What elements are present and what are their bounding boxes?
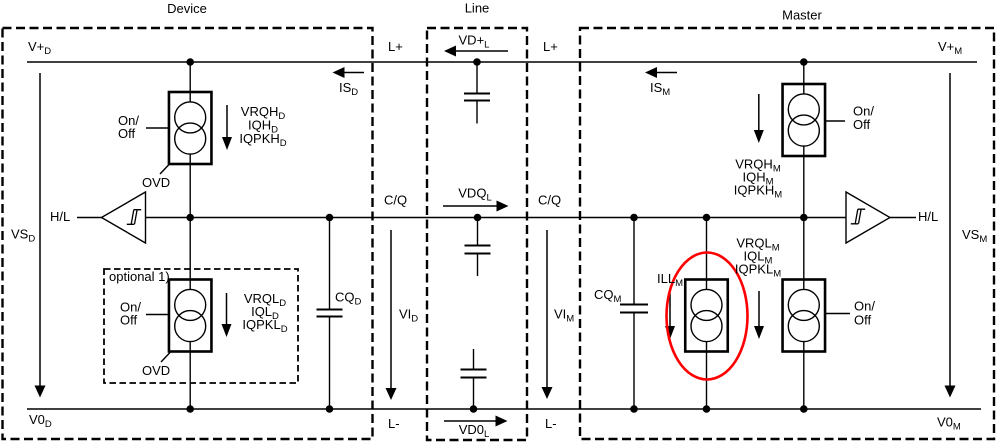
node C/Q line <box>474 214 482 222</box>
node C/Q master source <box>800 214 808 222</box>
wire device top current source to C/Q rail <box>189 154 191 218</box>
arrow VRQLD current <box>222 293 232 337</box>
svg-text:C/Q: C/Q <box>538 193 561 208</box>
svg-text:Line: Line <box>465 1 490 16</box>
svg-text:Off: Off <box>853 117 870 132</box>
arrow ISM <box>645 67 677 78</box>
wire top rail L+ <box>27 61 977 63</box>
svg-text:OVD: OVD <box>142 175 170 190</box>
arrow ILLM current <box>665 293 675 339</box>
node C/Q device source <box>186 214 194 222</box>
svg-text:L-: L- <box>388 416 400 431</box>
arrow VIM <box>542 230 553 399</box>
svg-text:H/L: H/L <box>918 209 938 224</box>
wire OVD pointer device top <box>160 165 169 175</box>
node top rail device <box>186 58 194 66</box>
arrow VRQHM current <box>754 94 764 143</box>
wire C/Q rail to master bottom current source <box>803 218 805 290</box>
current source ILL master <box>685 280 728 352</box>
current source IQL device (optional) <box>169 280 212 352</box>
svg-text:L-: L- <box>545 416 557 431</box>
arrow VD+L <box>444 46 508 57</box>
node top rail master <box>800 58 808 66</box>
wire C/Q rail <box>146 217 846 219</box>
capacitor line bottom <box>461 349 487 409</box>
current source IQH device (top) <box>169 92 212 164</box>
arrow ISD <box>333 67 365 78</box>
wire V+M rail to master top current source <box>803 62 805 94</box>
wire On/Off to master bottom current source <box>825 313 850 315</box>
op-amp comparator master (H/L) <box>846 192 890 243</box>
wire On/Off to device top current source <box>146 127 168 129</box>
svg-text:Off: Off <box>118 126 135 141</box>
wire V+D rail to device top current source <box>189 62 191 102</box>
wire On/Off to optional current source <box>146 314 169 316</box>
wire OVD pointer optional <box>161 353 170 363</box>
wire master comparator output to H/L <box>890 217 916 219</box>
wire C/Q rail to ILL current source <box>706 218 708 290</box>
node bottom rail line <box>470 405 478 413</box>
Device block dashed boundary <box>3 28 373 439</box>
wire device comparator output to H/L <box>77 217 102 219</box>
arrow VSM <box>945 73 956 398</box>
arrow VD0L <box>444 416 508 427</box>
svg-text:Master: Master <box>782 8 822 23</box>
svg-text:H/L: H/L <box>50 209 70 224</box>
svg-text:optional 1): optional 1) <box>109 269 170 284</box>
node C/Q ILL <box>703 214 711 222</box>
current source IQH master (top) <box>783 84 826 156</box>
arrow VDQL <box>443 201 509 212</box>
wire ILL current source to V0 rail <box>706 342 708 409</box>
wire C/Q rail to optional current source <box>189 218 191 290</box>
svg-text:L+: L+ <box>543 39 558 54</box>
hysteresis symbol master <box>851 209 865 224</box>
wire optional current source to V0 rail <box>189 342 191 409</box>
node bottom rail master source <box>800 405 808 413</box>
arrow VID <box>386 230 397 400</box>
Master block dashed boundary <box>580 28 994 439</box>
svg-text:Device: Device <box>167 1 207 16</box>
wire bottom rail L- <box>27 408 981 410</box>
arrow VRQHD current <box>222 105 232 150</box>
capacitor CQD <box>317 218 343 410</box>
node bottom rail ILL <box>703 405 711 413</box>
capacitor CQM <box>620 218 648 410</box>
arrow VRQLM current <box>754 291 764 339</box>
svg-text:OVD: OVD <box>142 363 170 378</box>
arrow VSD <box>35 73 46 398</box>
wire master bottom current source to V0 rail <box>803 342 805 409</box>
node top rail line <box>473 58 481 66</box>
svg-text:C/Q: C/Q <box>384 193 407 208</box>
svg-text:Off: Off <box>854 313 871 328</box>
node bottom rail CQD <box>326 405 334 413</box>
wire master top current source to C/Q rail <box>803 147 805 218</box>
node C/Q CQM <box>630 214 638 222</box>
svg-text:Off: Off <box>120 313 137 328</box>
capacitor line middle <box>465 218 491 277</box>
wire On/Off to master top current source <box>825 120 845 122</box>
op-amp comparator device (H/L) <box>102 192 146 243</box>
red highlight ellipse around ILL <box>667 253 748 380</box>
optional block dashed boundary <box>104 269 298 383</box>
node C/Q CQD <box>326 214 334 222</box>
svg-text:L+: L+ <box>388 39 403 54</box>
node bottom rail CQM <box>630 405 638 413</box>
hysteresis symbol device <box>127 210 141 225</box>
capacitor line top <box>464 62 490 124</box>
node bottom rail device source <box>186 405 194 413</box>
svg-text:On/: On/ <box>854 299 875 314</box>
Line block dashed boundary <box>427 28 527 440</box>
current source IQL master (bottom right) <box>783 280 826 352</box>
